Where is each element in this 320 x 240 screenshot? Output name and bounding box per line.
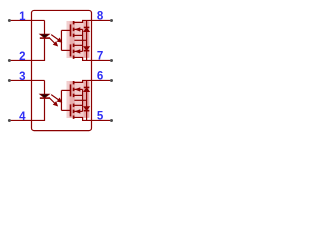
svg-text:7: 7	[97, 50, 103, 62]
svg-text:6: 6	[97, 70, 103, 82]
svg-text:5: 5	[97, 110, 104, 122]
svg-text:1: 1	[19, 11, 26, 23]
svg-text:2: 2	[19, 51, 25, 63]
svg-text:4: 4	[19, 111, 26, 123]
svg-text:3: 3	[19, 71, 25, 83]
svg-text:8: 8	[97, 10, 104, 22]
